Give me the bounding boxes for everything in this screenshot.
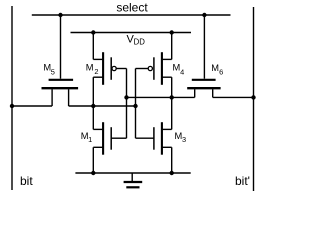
svg-text:select: select bbox=[116, 0, 148, 14]
label M4 bbox=[173, 63, 185, 77]
svg-text:3: 3 bbox=[182, 135, 186, 144]
node VDD to M2 junction bbox=[91, 30, 95, 34]
node Q' junction bbox=[170, 95, 174, 99]
label M5 bbox=[43, 63, 54, 77]
svg-text:M: M bbox=[173, 63, 181, 73]
transistor M6 (access NMOS, right) bbox=[187, 15, 220, 97]
svg-text:bit': bit' bbox=[235, 174, 250, 188]
wire select line bbox=[32, 14, 231, 16]
node junction bit line bbox=[10, 104, 14, 108]
node select to M5 gate junction bbox=[58, 13, 62, 17]
ground symbol bbox=[124, 173, 143, 187]
wire bit line (left vertical) bbox=[11, 6, 13, 190]
wire M1 source to ground rail bbox=[92, 147, 94, 173]
node junction bit' line bbox=[251, 95, 255, 99]
svg-text:4: 4 bbox=[180, 68, 184, 77]
node select to M6 gate junction bbox=[202, 13, 206, 17]
wire VDD rail bbox=[71, 32, 192, 34]
svg-text:6: 6 bbox=[219, 67, 223, 76]
svg-text:M: M bbox=[86, 63, 94, 73]
node M3 to ground junction bbox=[170, 171, 174, 175]
node Q junction bbox=[91, 104, 95, 108]
svg-text:bit: bit bbox=[20, 174, 33, 188]
node gate column to Q junction bbox=[133, 104, 137, 108]
svg-text:2: 2 bbox=[94, 67, 98, 76]
wire M3 source to ground rail bbox=[171, 147, 173, 173]
svg-text:M: M bbox=[211, 63, 219, 73]
wire ground rail bbox=[75, 172, 190, 174]
label M2 bbox=[86, 63, 99, 76]
label M3 bbox=[175, 131, 187, 144]
transistor M5 (access NMOS, left) bbox=[42, 15, 79, 106]
node gate column to Q' junction bbox=[124, 95, 128, 99]
svg-text:1: 1 bbox=[88, 135, 92, 144]
wire M1/M2 gate column bbox=[126, 69, 128, 139]
node M1 to ground junction bbox=[91, 171, 95, 175]
wire M2 drain to M1 drain (node Q column) bbox=[92, 77, 94, 129]
transistor M1 (NMOS, left inverter) bbox=[93, 122, 126, 155]
wire node Q' rail (M1/M2 gate column to M6) bbox=[127, 96, 195, 98]
label VDD bbox=[127, 33, 146, 46]
label M6 bbox=[211, 63, 223, 77]
transistor M2 (PMOS, left inverter) bbox=[93, 33, 126, 85]
wire M4 drain to M3 drain (node Q' column) bbox=[171, 77, 173, 129]
label M1 bbox=[81, 131, 92, 144]
wire M3/M4 gate column bbox=[135, 69, 137, 139]
wire node Q rail (M5 drain to M3/M4 gate column) bbox=[69, 105, 136, 107]
svg-text:DD: DD bbox=[134, 38, 146, 47]
svg-text:5: 5 bbox=[51, 68, 55, 77]
wire bit to M5 source bbox=[12, 105, 52, 107]
transistor M4 (PMOS, right inverter) bbox=[136, 33, 172, 85]
wire M6 to bit' bbox=[213, 96, 254, 98]
wire bit' line (right vertical) bbox=[253, 7, 255, 191]
node VDD to M4 junction bbox=[170, 30, 174, 34]
transistor M3 (NMOS, right inverter) bbox=[136, 122, 172, 155]
